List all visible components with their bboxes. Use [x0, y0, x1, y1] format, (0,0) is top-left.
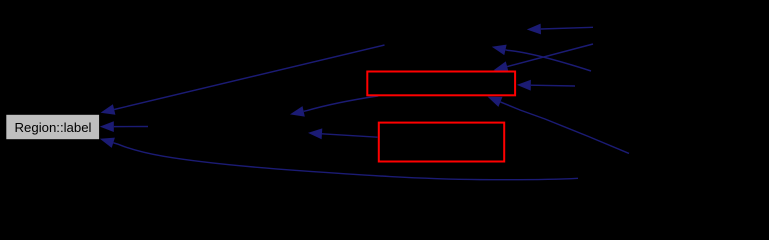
edge E7: caller to red node 1 (right edge)	[517, 80, 575, 91]
edge E3: caller to Region::label (long bottom curve)	[100, 138, 578, 180]
edge E1: caller to Region::label (top-right corner)	[101, 45, 385, 115]
edge E10: red node 2 to hidden node (left)	[308, 128, 378, 139]
edge E5: caller to red node 1 (top edge)	[494, 44, 593, 72]
edge E8: caller to red node 1 (bottom edge)	[488, 97, 630, 154]
edge E9: red node 1 to hidden node (down-left)	[290, 96, 378, 117]
edge E2: caller to Region::label (right edge, horizontal)	[100, 121, 148, 132]
node: red box 1 (truncated caller node)	[367, 72, 515, 96]
edge E6: arrow to hidden node (middle)	[492, 45, 591, 71]
node: Region::label (current function, gray)	[6, 115, 99, 139]
svg-text:Region::label: Region::label	[15, 120, 92, 135]
edge E4: arrow to hidden node (top)	[527, 24, 593, 35]
node: red box 2 (truncated caller node, two-line)	[379, 123, 504, 162]
